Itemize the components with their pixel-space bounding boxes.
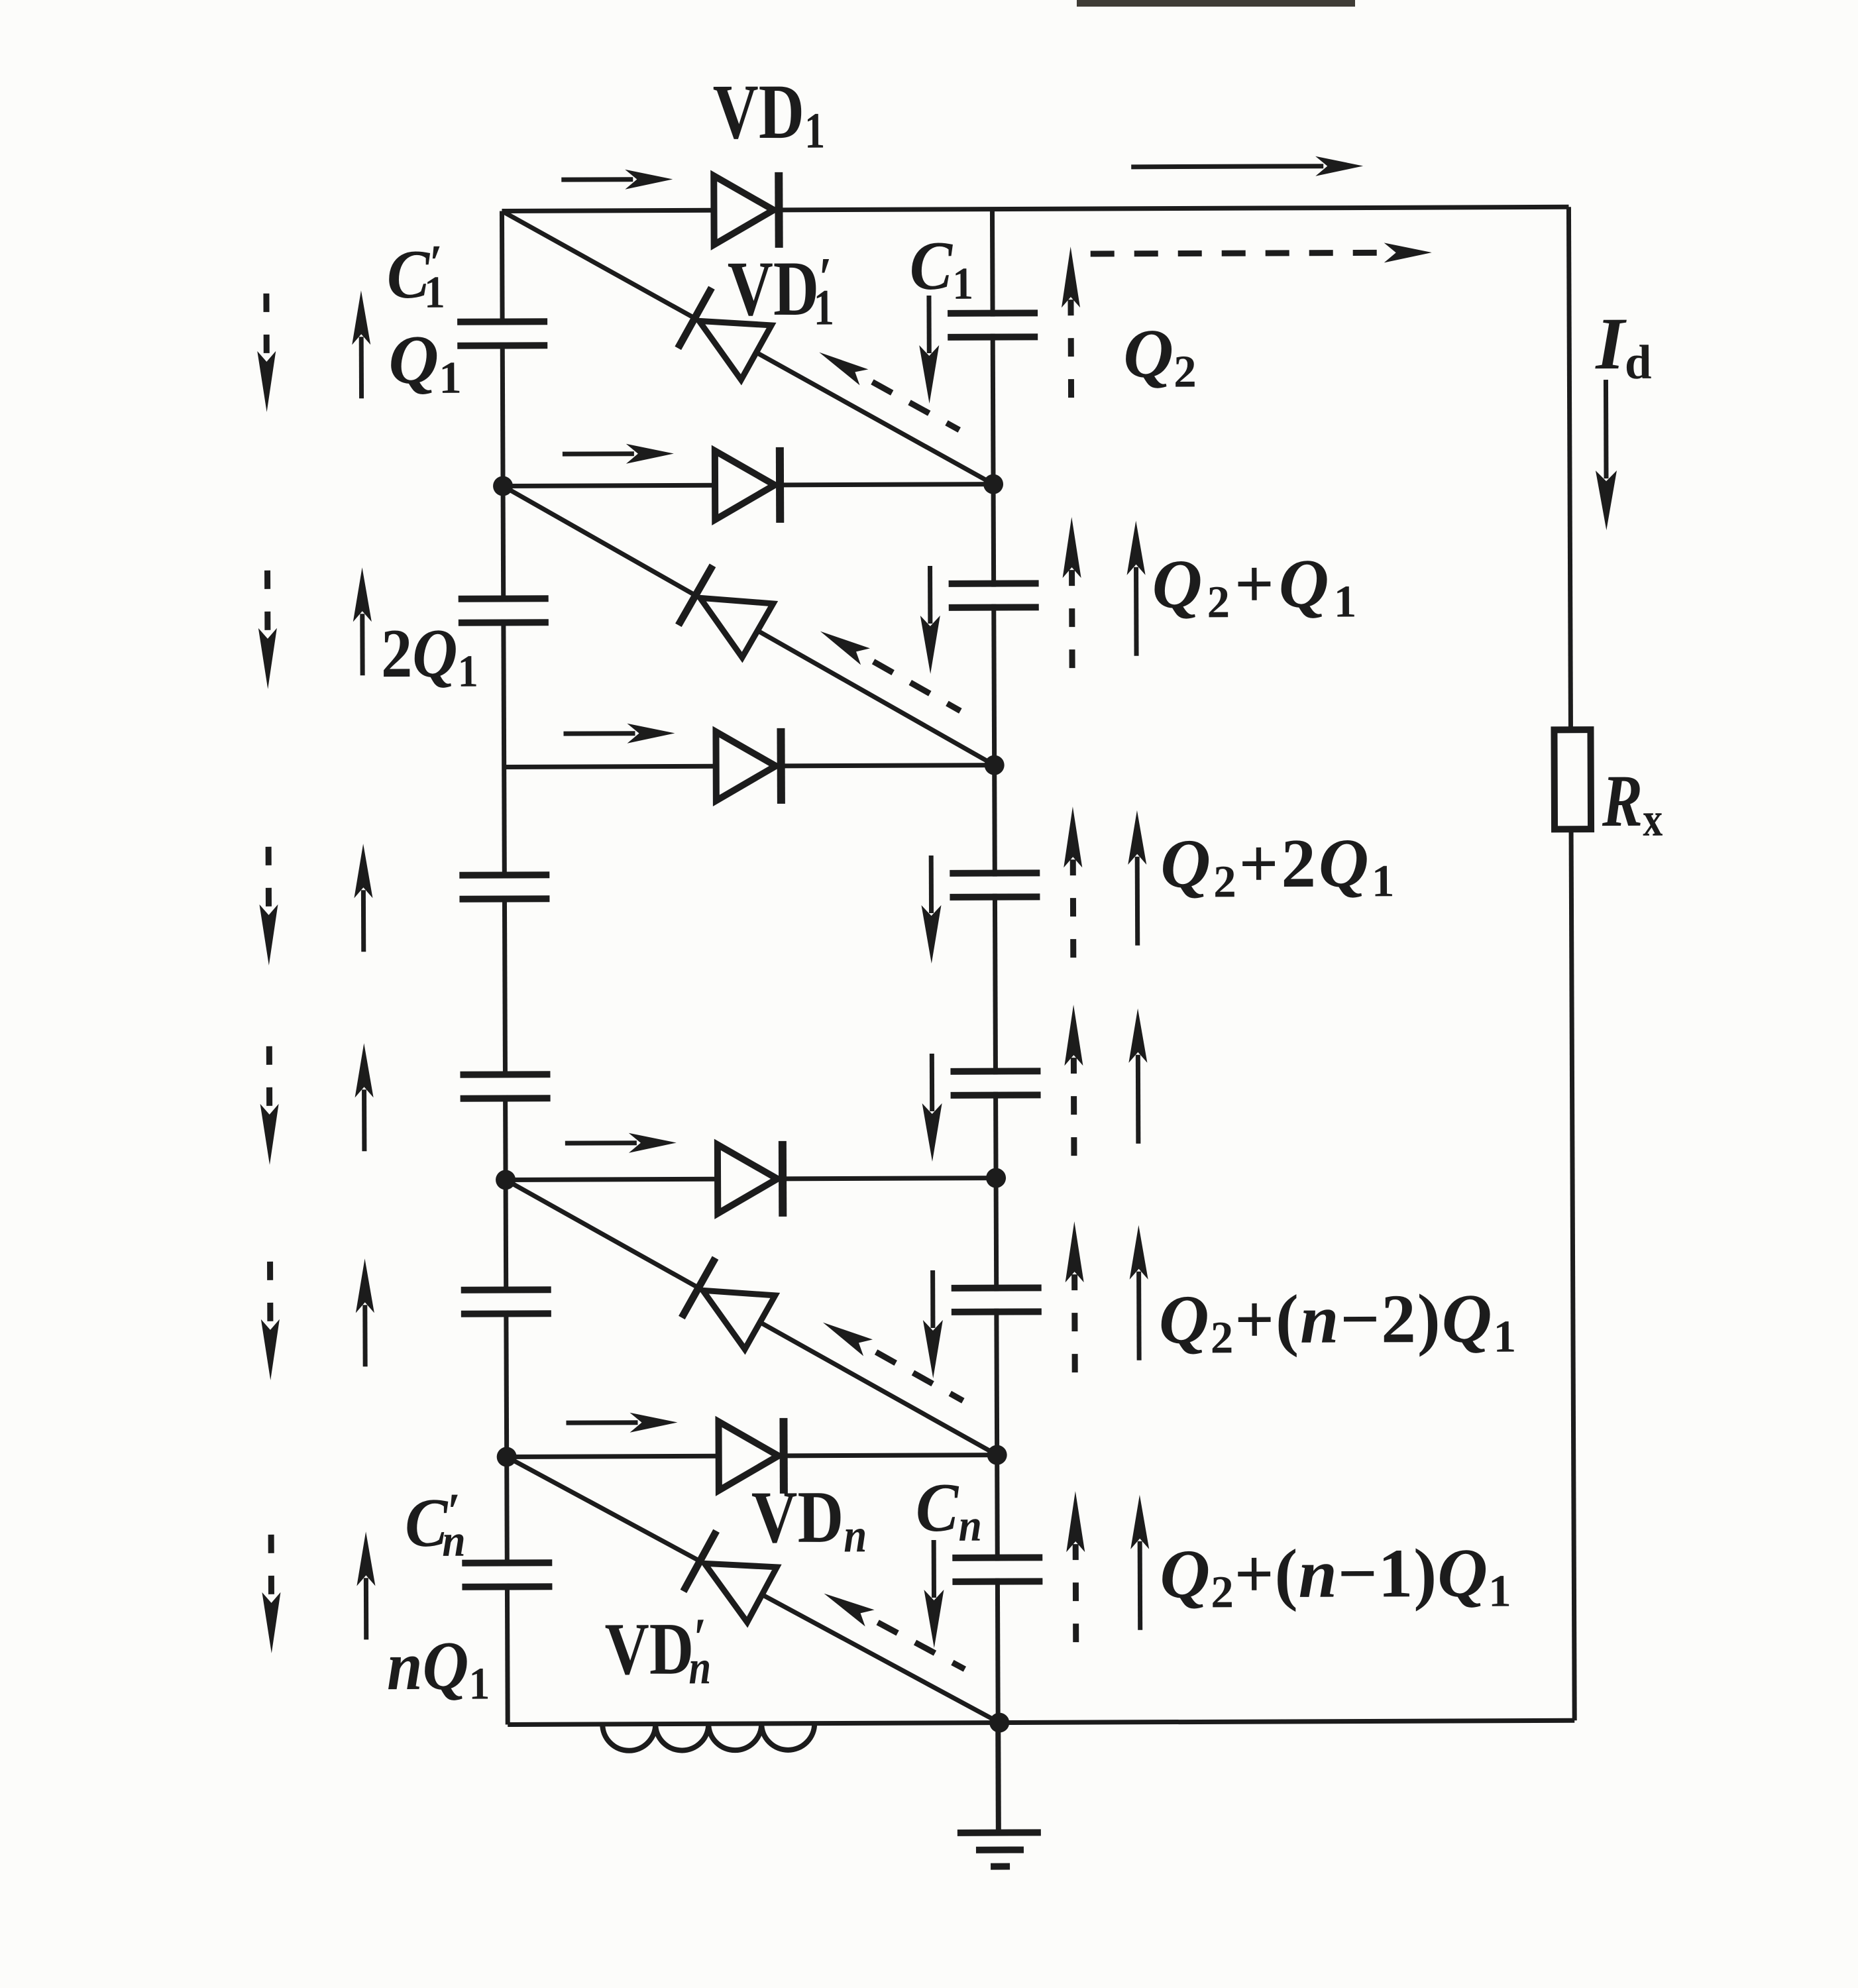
transformer secondary winding <box>602 1724 814 1751</box>
diode VDn <box>718 1421 778 1490</box>
svg-text:Q2+2Q1: Q2+2Q1 <box>1160 824 1397 907</box>
solid up arrow right of C4 <box>1136 1055 1141 1144</box>
current arrow over VD(n-1) <box>565 1140 637 1145</box>
capacitor C'1 <box>493 325 512 342</box>
current arrow over VD1 <box>561 177 633 182</box>
dashed up arrow right of C4 <box>1071 1058 1077 1156</box>
solid up arrow right of C3 <box>1135 857 1140 946</box>
capacitor C'n <box>498 1566 516 1583</box>
solid up arrow (charge C'3) <box>361 890 366 952</box>
diode VD3 <box>716 732 775 801</box>
dashed down arrow left of C'n <box>268 1535 274 1600</box>
solid up arrow (charge C'2) <box>360 614 364 675</box>
wire: row 2 horizontal <box>503 484 993 486</box>
wire: diagonal stage 1 (VD'1 branch) <box>502 209 993 486</box>
capacitor C3 <box>985 877 1004 894</box>
solid up arrow (charge C'1) <box>359 337 364 398</box>
node: left rail row 4 <box>496 1170 516 1189</box>
diode VD'n (on diagonal) <box>683 1531 716 1591</box>
svg-text:VD′1: VD′1 <box>728 245 834 337</box>
wire: diagonal stage n (VD'n branch) <box>507 1455 1000 1725</box>
solid down arrow on Cn <box>932 1540 936 1598</box>
wire: middle (capacitor column C1..Cn) rail <box>992 209 998 1723</box>
solid down arrow on C4 <box>930 1054 934 1111</box>
capacitor C'(n-1) <box>497 1293 516 1310</box>
dashed current arrow along diagonal n-1 <box>876 1352 963 1402</box>
scan artifact bar (decorative) <box>1077 0 1355 7</box>
wire: row 5 horizontal <box>507 1455 997 1457</box>
diode VD'2 (on diagonal) <box>679 565 713 625</box>
current arrow over VD3 <box>563 731 635 736</box>
dashed down arrow left of C'4 <box>266 1046 272 1112</box>
capacitor C'4 <box>496 1077 514 1095</box>
wire: row 3 horizontal <box>504 765 995 767</box>
node: bottom junction (transformer / ground) <box>989 1713 1009 1733</box>
node: right rail row 2 <box>983 474 1003 494</box>
wire: top horizontal bus <box>502 207 1568 211</box>
solid down arrow on C2 <box>928 566 932 624</box>
solid down arrow on C1 <box>926 296 931 353</box>
node: right rail row 5 <box>987 1445 1007 1465</box>
resistor Rx <box>1554 730 1591 829</box>
dashed current arrow along diagonal 2 <box>873 661 960 712</box>
current arrow over VDn <box>566 1420 637 1425</box>
current arrow over VD2 <box>563 451 634 456</box>
capacitor C(n-1) <box>987 1292 1006 1309</box>
diode VD'(n-1) (on diagonal) <box>682 1258 716 1317</box>
svg-text:VD′n: VD′n <box>605 1606 712 1694</box>
dashed up arrow right of Cn <box>1073 1544 1079 1642</box>
diode VD1 <box>714 176 773 245</box>
solid up arrow (charge C'4) <box>362 1089 366 1151</box>
dashed up arrow right of C(n-1) <box>1071 1274 1078 1372</box>
current arrow Id <box>1604 380 1609 478</box>
wire: row 4 horizontal <box>506 1178 996 1180</box>
wire: left rail <box>502 211 508 1724</box>
diode VD2 <box>715 451 775 520</box>
wire: far right rail (load branch) <box>1568 207 1574 1720</box>
diode VD'1 (on diagonal) <box>678 288 712 348</box>
dashed down arrow left of C'3 <box>266 847 272 912</box>
dashed current arrow Q2 path (top) <box>1091 252 1392 254</box>
capacitor Cn <box>988 1561 1007 1578</box>
solid up arrow right of C2 <box>1134 567 1139 656</box>
node: left rail row 2 <box>493 476 513 496</box>
solid up arrow right of Cn <box>1138 1541 1143 1630</box>
solid down arrow on C3 <box>929 856 934 913</box>
dashed down arrow left of C'2 <box>264 571 270 636</box>
node: left rail row 5 <box>497 1447 517 1466</box>
dashed down arrow left of C'1 <box>263 294 269 359</box>
wire: bottom return bus <box>508 1720 1574 1724</box>
capacitor C1 <box>983 317 1002 334</box>
svg-text:C′1: C′1 <box>387 235 445 318</box>
dashed down arrow left of C'(n-1) <box>267 1262 273 1327</box>
node: right rail row 3 <box>985 755 1005 775</box>
dashed current arrow along diagonal 1 <box>872 382 959 431</box>
dashed current arrow along diagonal n <box>878 1622 965 1670</box>
capacitor C'2 <box>494 602 513 619</box>
dashed up arrow right of C1 <box>1067 300 1074 398</box>
node: right rail row 4 <box>986 1168 1006 1188</box>
dashed up arrow right of C3 <box>1070 859 1077 958</box>
capacitor C'3 <box>495 878 514 895</box>
dashed up arrow right of C2 <box>1069 570 1075 668</box>
current arrow on top bus (right section) <box>1131 166 1323 167</box>
solid up arrow (charge C'n) <box>364 1578 368 1639</box>
wire: diagonal stage 2 <box>503 484 995 767</box>
svg-text:C′n: C′n <box>405 1483 466 1567</box>
wire: diagonal stage n-1 <box>506 1178 997 1457</box>
solid up arrow right of C(n-1) <box>1136 1272 1142 1360</box>
capacitor C4 <box>986 1075 1005 1092</box>
solid up arrow (charge C'(n-1)) <box>362 1305 367 1366</box>
svg-text:Q2+Q1: Q2+Q1 <box>1152 544 1361 627</box>
diode VD(n-1) <box>718 1144 777 1213</box>
ground <box>995 1723 1001 1830</box>
capacitor C2 <box>985 587 1003 604</box>
solid down arrow on C(n-1) <box>930 1270 935 1328</box>
